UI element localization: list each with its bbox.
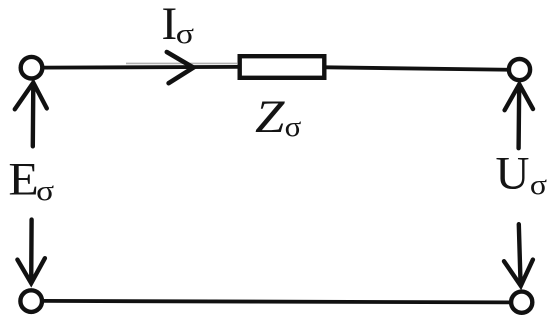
wire: top wire, left segment (node 1 to Z box): [42, 65, 238, 69]
svg-text:σ: σ: [530, 169, 548, 201]
node 4: bottom-right terminal: [511, 292, 532, 313]
svg-text:σ: σ: [36, 175, 54, 207]
wire: top wire, right segment (Z box to node 2): [326, 67, 510, 70]
E source arrow, upper (points up at node 1): [15, 83, 47, 147]
svg-text:σ: σ: [285, 111, 302, 143]
svg-text:σ: σ: [176, 18, 195, 50]
U voltage arrow, upper (points up at node 2): [505, 84, 533, 148]
node 2: top-right terminal: [509, 59, 530, 80]
E source arrow, lower (points down at node 3): [17, 220, 45, 284]
label E sigma: [8, 154, 54, 208]
label U sigma: [496, 148, 548, 202]
svg-text:U: U: [496, 148, 530, 200]
node 1: top-left terminal: [21, 57, 43, 79]
current arrow for I sigma on top wire: [167, 52, 194, 83]
svg-text:E: E: [8, 154, 38, 206]
svg-text:Z: Z: [255, 91, 285, 143]
node 3: bottom-left terminal: [20, 290, 42, 312]
wire: bottom return wire (node 3 to node 4): [42, 301, 512, 303]
label Z sigma: [255, 91, 302, 143]
label I sigma: [162, 0, 195, 50]
U voltage arrow, lower (points down at node 4): [504, 224, 533, 286]
svg-text:I: I: [162, 0, 178, 50]
wire: faint double-draw artifact above top wire: [126, 62, 237, 64]
impedance Z (rectangle body): [240, 56, 325, 78]
